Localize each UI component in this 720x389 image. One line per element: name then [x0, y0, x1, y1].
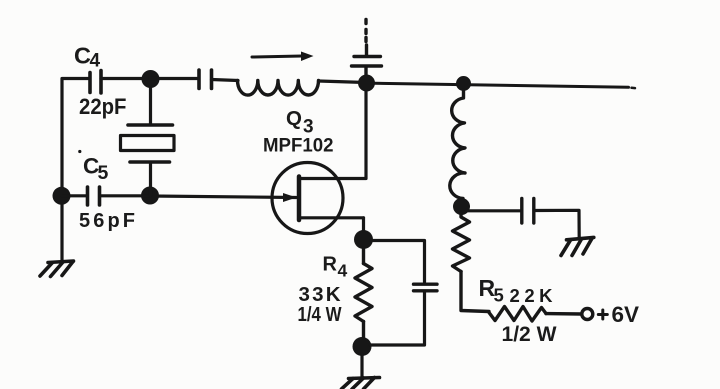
node: gate junction	[141, 187, 159, 205]
transistor Q3 (JFET)	[272, 163, 364, 240]
svg-text:R: R	[323, 254, 338, 276]
svg-text:1/4 W: 1/4 W	[298, 304, 342, 326]
wire: C4 to junction	[101, 77, 150, 80]
antenna coupling capacitor (dashed antenna lead)	[352, 20, 382, 77]
arrow (signal direction)	[252, 52, 314, 62]
node: left rail lower junction	[53, 187, 71, 205]
wire: left rail to C5	[62, 194, 87, 197]
svg-text:6V: 6V	[612, 302, 640, 327]
label Q3	[286, 107, 314, 138]
svg-text:Q: Q	[286, 107, 302, 130]
svg-text:MPF102: MPF102	[263, 135, 334, 157]
capacitor (output coupling)	[522, 199, 534, 224]
crystal Y1	[121, 87, 175, 195]
label R5	[479, 275, 504, 306]
capacitor (source bypass)	[414, 284, 438, 291]
wire: output cap to ground	[535, 210, 579, 237]
label C4	[74, 43, 101, 72]
svg-text:4: 4	[90, 51, 101, 72]
capacitor C4	[90, 71, 101, 94]
svg-text:56pF: 56pF	[79, 210, 135, 232]
wire: bypass cap branch (top)	[371, 241, 425, 283]
inductor L2 (RFC vertical coil)	[450, 90, 465, 203]
wire: junction to output cap	[468, 209, 520, 212]
resistor (vertical section of R5 path)	[453, 213, 490, 312]
svg-text:33K: 33K	[299, 283, 341, 306]
node: drain bus junction	[358, 75, 375, 92]
wire: drain vertical lead	[301, 90, 366, 179]
label +6V	[598, 302, 639, 327]
wire: cap to inductor	[212, 80, 239, 81]
svg-text:22K: 22K	[510, 285, 554, 306]
resistor R5	[489, 307, 582, 322]
wire: left vertical rail	[60, 79, 63, 261]
label R4	[323, 254, 348, 281]
svg-text:5: 5	[494, 285, 504, 306]
terminal: +6V output	[582, 309, 593, 320]
capacitor C5	[88, 187, 100, 205]
svg-text:22pF: 22pF	[79, 94, 127, 119]
svg-text:5: 5	[98, 162, 109, 184]
ground (right)	[561, 237, 594, 255]
wire: junction to coupling cap	[150, 77, 198, 80]
ground (bottom)	[342, 378, 380, 389]
wire: bottom junction to ground	[360, 354, 363, 377]
label C5	[78, 150, 108, 184]
svg-text:4: 4	[338, 261, 348, 281]
ground (left)	[40, 261, 74, 277]
node: bottom junction	[353, 337, 372, 356]
node: RFC bottom junction	[453, 198, 470, 215]
wire: top-left segment	[62, 77, 89, 80]
node: RFC top junction	[456, 76, 471, 91]
svg-text:C: C	[74, 43, 91, 69]
wire: bypass cap branch (bottom)	[370, 293, 425, 346]
node: C4 / crystal junction	[142, 70, 160, 88]
wire: main output bus	[374, 83, 635, 88]
node: source junction	[354, 230, 373, 249]
svg-text:1/2 W: 1/2 W	[502, 322, 558, 346]
wire: gate lead	[151, 196, 297, 198]
wire: C5 to gate junction	[100, 194, 150, 197]
inductor L1 (horizontal coil)	[238, 81, 319, 96]
resistor R4	[355, 248, 372, 347]
capacitor (series coupling)	[199, 70, 212, 89]
wire: inductor to drain junction	[319, 81, 367, 83]
